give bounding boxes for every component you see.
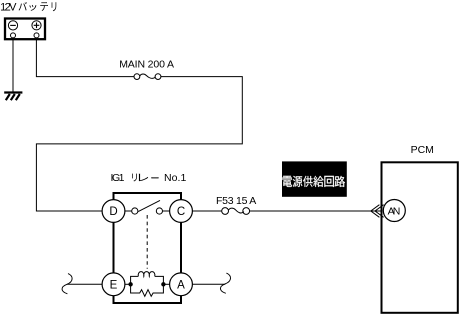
terminal C xyxy=(170,200,193,223)
battery plus terminal symbol xyxy=(32,21,41,30)
harness continuation symbol left xyxy=(62,274,72,294)
net label: power supply circuit (電源供給回路) black tag xyxy=(282,161,347,196)
wire: C to fuse F53 xyxy=(192,210,221,212)
svg-text:A: A xyxy=(177,280,185,292)
wire: battery minus to ground xyxy=(12,38,14,92)
wire: MAIN fuse right, down, left, down to relay terminal D xyxy=(36,77,242,211)
svg-text:D: D xyxy=(109,206,117,218)
svg-text:MAIN 200 A: MAIN 200 A xyxy=(119,58,174,70)
junction node left xyxy=(128,282,132,286)
battery minus terminal symbol xyxy=(8,21,17,30)
svg-text:F53 15 A: F53 15 A xyxy=(216,195,256,207)
harness continuation symbol right xyxy=(220,273,230,293)
ground (chassis) symbol xyxy=(4,93,22,101)
fuse F53 15 A symbol xyxy=(222,208,229,215)
relay switch contact from D xyxy=(125,210,132,212)
svg-text:E: E xyxy=(110,280,118,292)
relay coil (inductor) upper branch xyxy=(131,276,139,284)
PCM module box xyxy=(382,162,458,312)
relay coil resistor lower branch xyxy=(131,284,164,296)
relay K1 body box xyxy=(114,193,182,303)
wire: A to right harness break xyxy=(192,283,225,285)
battery minus post xyxy=(11,33,16,38)
terminal E xyxy=(102,273,125,296)
svg-text:AN: AN xyxy=(388,205,401,217)
PCM pin AN xyxy=(383,200,405,222)
connector chevrons into PCM xyxy=(371,205,384,218)
svg-text:IG1: IG1 xyxy=(111,172,125,184)
wire: E to left harness break xyxy=(67,283,102,285)
junction node right xyxy=(161,282,165,286)
wire: E to coil junction xyxy=(125,283,131,285)
battery plus post xyxy=(34,33,39,38)
wire: coil junction to A xyxy=(163,283,169,285)
battery BAT box xyxy=(5,19,45,40)
terminal D xyxy=(102,200,125,223)
fuse MAIN 200 A symbol xyxy=(134,74,140,80)
svg-text:No.1: No.1 xyxy=(164,172,186,184)
relay actuation dashed link xyxy=(146,215,148,269)
terminal A xyxy=(170,273,193,296)
wire: battery plus down and right to MAIN fuse xyxy=(36,38,133,77)
relay switch arm (open) xyxy=(138,200,160,211)
relay switch contact to C xyxy=(156,208,162,214)
svg-text:PCM: PCM xyxy=(411,144,434,156)
wire: fuse F53 to PCM connector xyxy=(250,210,382,212)
svg-text:12V: 12V xyxy=(0,1,17,13)
svg-text:C: C xyxy=(177,206,185,218)
